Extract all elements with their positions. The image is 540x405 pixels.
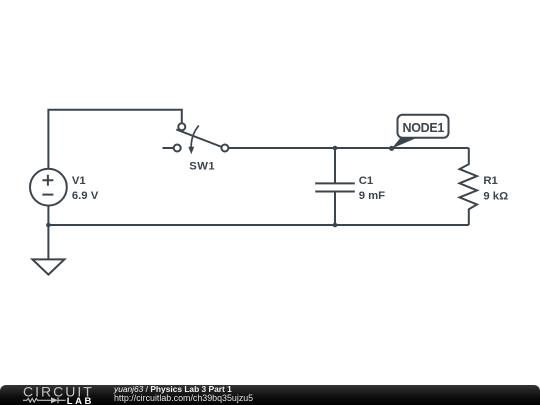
node NODE1 junction dot bbox=[389, 146, 394, 151]
svg-text:V1: V1 bbox=[72, 175, 86, 187]
svg-text:6.9 V: 6.9 V bbox=[72, 190, 99, 202]
NODE1 callout box bbox=[398, 115, 449, 138]
voltage source V1 bbox=[30, 169, 67, 206]
svg-text:SW1: SW1 bbox=[189, 161, 215, 173]
NODE1 callout pointer bbox=[392, 138, 417, 149]
wire bbox=[48, 224, 468, 226]
wire bbox=[48, 110, 181, 169]
capacitor C1 bbox=[315, 148, 355, 225]
resistor R1 bbox=[460, 148, 478, 225]
footer bar bbox=[0, 385, 540, 405]
wire bbox=[47, 206, 49, 225]
switch arrowhead bbox=[188, 147, 194, 154]
svg-text:R1: R1 bbox=[483, 175, 497, 187]
svg-text:LAB: LAB bbox=[67, 396, 94, 405]
switch SW1 bbox=[176, 129, 222, 147]
svg-text:9 kΩ: 9 kΩ bbox=[483, 190, 508, 202]
node A junction dot bbox=[46, 223, 51, 228]
svg-text:C1: C1 bbox=[359, 175, 373, 187]
node C junction dot bbox=[333, 223, 338, 228]
wire bbox=[229, 147, 469, 149]
svg-text:NODE1: NODE1 bbox=[403, 121, 445, 135]
node B junction dot bbox=[333, 146, 338, 151]
svg-text:9 mF: 9 mF bbox=[359, 190, 385, 202]
ground bbox=[47, 225, 49, 259]
